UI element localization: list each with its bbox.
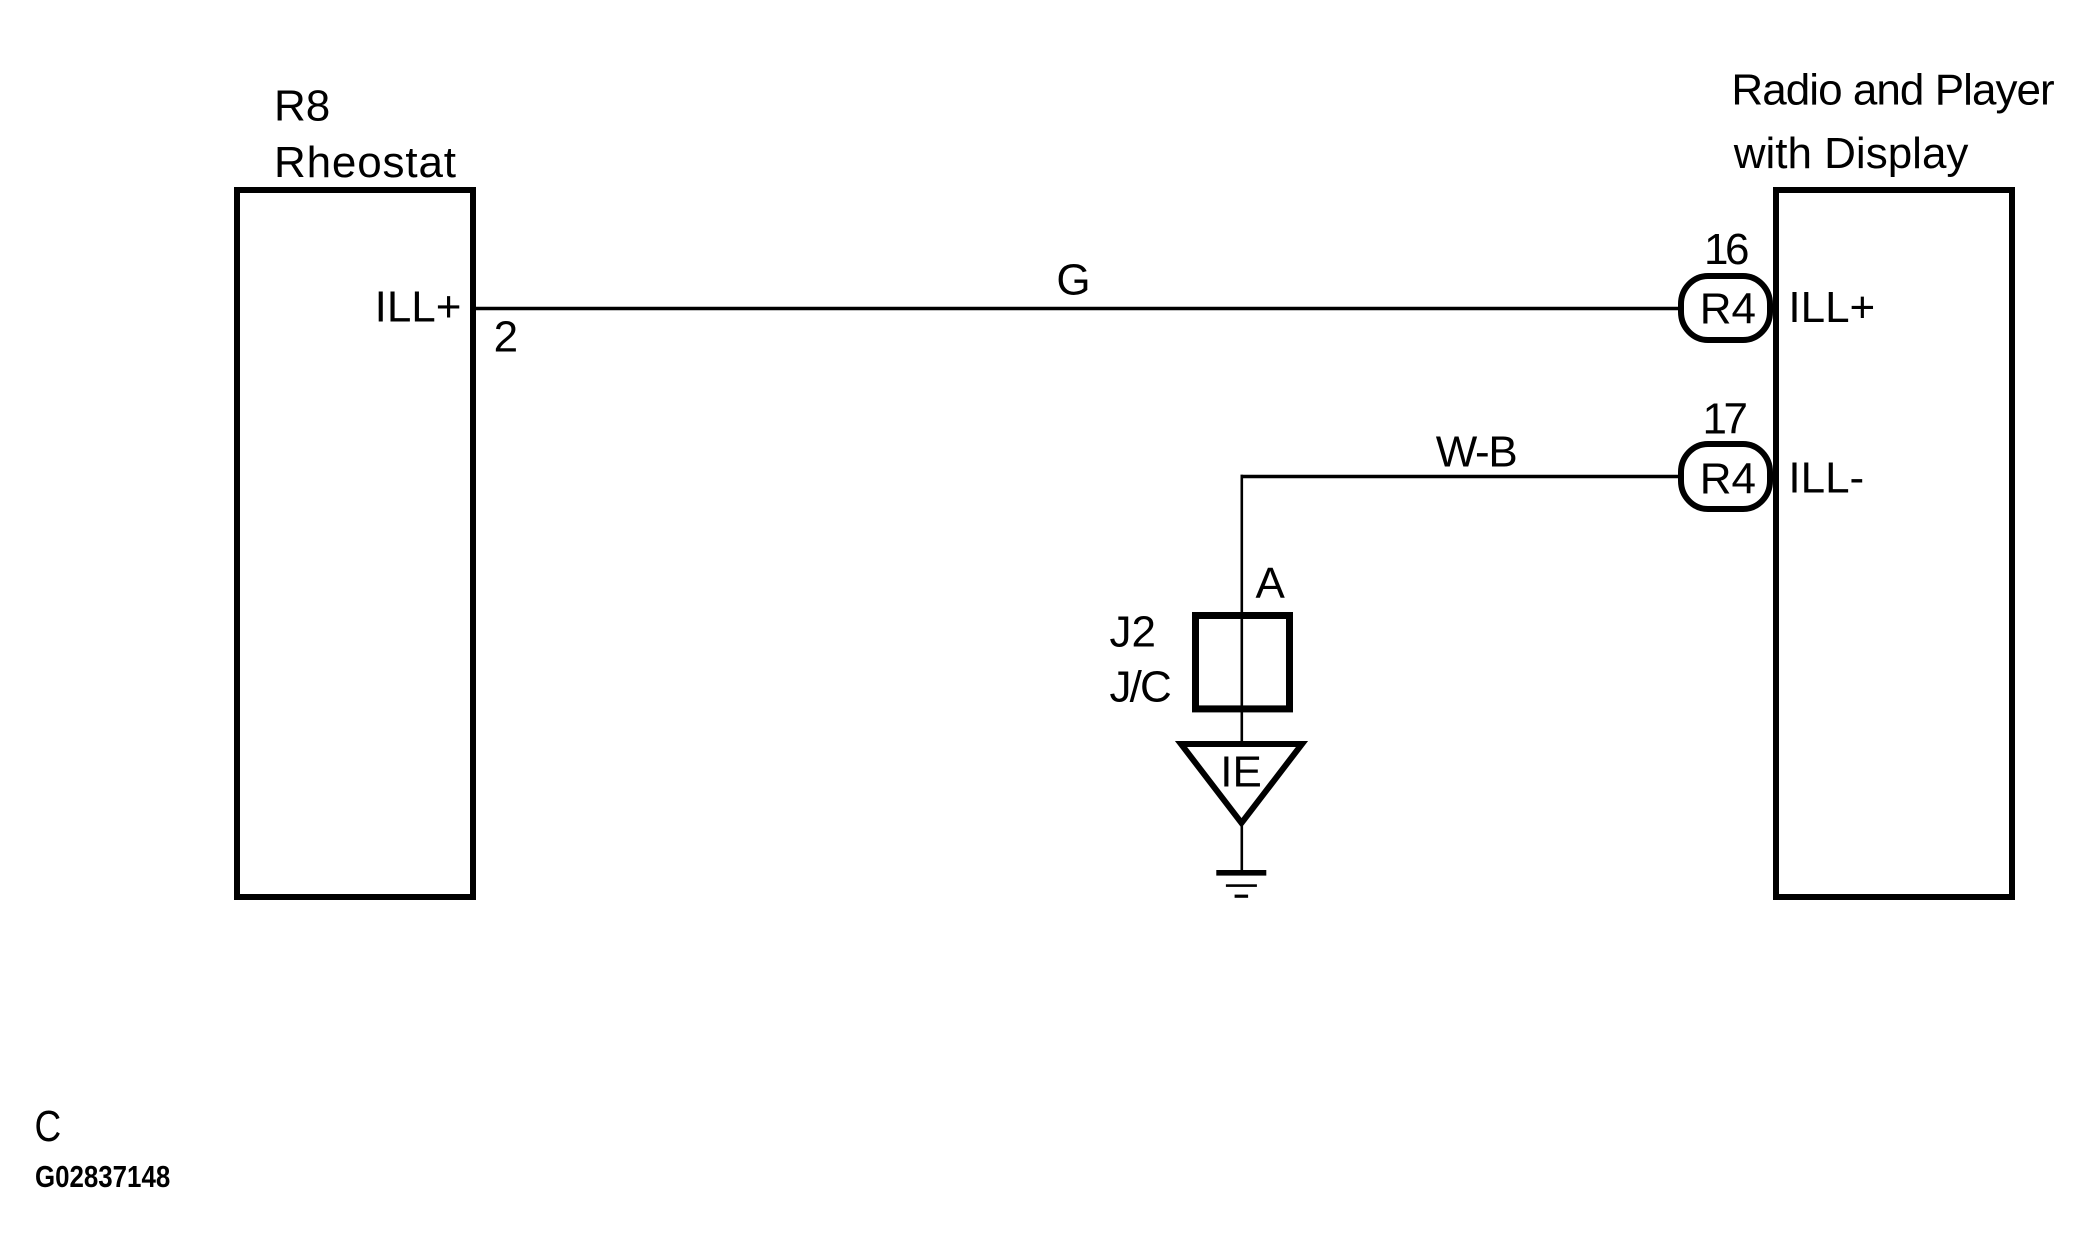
svg-text:ILL-: ILL-	[1788, 454, 1864, 503]
svg-text:G: G	[1056, 256, 1090, 305]
svg-text:C: C	[35, 1101, 62, 1151]
svg-text:16: 16	[1704, 225, 1750, 274]
wire vertical from W-B corner down through junction J2 to ground triangle	[1241, 475, 1244, 746]
svg-text:with Display: with Display	[1733, 129, 1969, 178]
svg-text:J2: J2	[1110, 608, 1156, 657]
svg-text:Rheostat: Rheostat	[274, 138, 456, 187]
svg-text:R4: R4	[1700, 454, 1756, 503]
note C	[35, 1101, 62, 1151]
ground triangle IE	[1181, 744, 1302, 823]
wire G from R8 pin 2 to connector R4 pin 16	[474, 307, 1684, 310]
svg-text:2: 2	[494, 313, 518, 362]
svg-text:ILL+: ILL+	[375, 283, 462, 332]
component Radio and Player with Display box	[1776, 190, 2012, 897]
wire W-B from junction A to connector R4 pin 17	[1241, 475, 1685, 479]
wire from triangle apex to ground symbol	[1241, 826, 1244, 871]
svg-text:IE: IE	[1220, 748, 1262, 797]
junction connector J2 J/C box	[1196, 616, 1290, 709]
svg-text:17: 17	[1703, 394, 1749, 443]
svg-text:G02837148: G02837148	[35, 1160, 170, 1193]
svg-text:Radio and Player: Radio and Player	[1731, 65, 2054, 114]
svg-text:A: A	[1256, 559, 1286, 608]
figure id G02837148	[35, 1160, 170, 1193]
component R8 rheostat box	[237, 190, 473, 897]
connector R4 oval pin 17	[1681, 444, 1770, 509]
svg-text:R8: R8	[274, 82, 330, 131]
svg-text:W-B: W-B	[1436, 428, 1518, 477]
ground symbol bar 2	[1226, 884, 1257, 887]
connector R4 oval pin 16	[1681, 276, 1770, 340]
svg-text:R4: R4	[1700, 284, 1756, 333]
svg-text:ILL+: ILL+	[1788, 283, 1875, 332]
ground symbol bar 3	[1235, 895, 1249, 898]
ground symbol bar 1	[1216, 870, 1266, 876]
svg-text:J/C: J/C	[1110, 662, 1172, 711]
